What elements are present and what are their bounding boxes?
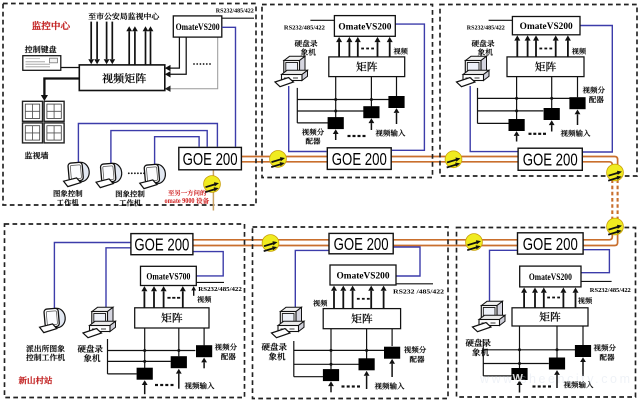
- svg-text:GOE 200: GOE 200: [332, 149, 387, 169]
- keyboard icon: [23, 56, 61, 71]
- box OmateVS200 (P1): [173, 16, 222, 37]
- bottom-middle: box 矩阵: [323, 309, 400, 329]
- box 视频矩阵: [79, 65, 165, 91]
- bottom-right: label 视频输入: [564, 381, 594, 388]
- top-right: box 矩阵: [507, 57, 584, 77]
- label 监视墙: [25, 152, 48, 159]
- svg-text:GOE 200: GOE 200: [523, 150, 578, 170]
- P4: workstation wire (blue): [54, 243, 130, 309]
- workstation 2: [96, 163, 122, 188]
- P4: RS232 wire: [196, 281, 224, 283]
- bottom-middle: box GOE 200: [329, 233, 393, 253]
- panel: bottom-middle substation: [253, 227, 449, 399]
- bottom-right: arrows matrix to codec: [523, 293, 525, 308]
- label 监控中心 (red): [32, 21, 70, 30]
- bottom-right: box GOE 200: [518, 233, 584, 254]
- panel: bottom-right substation: [457, 228, 636, 398]
- bottom-right: bus verticals from matrix: [519, 326, 521, 368]
- workstation 1: [64, 162, 90, 187]
- P4: box GOE 200: [131, 234, 193, 255]
- top-right: arrows matrix to codec: [516, 41, 518, 57]
- P4: box 矩阵: [135, 308, 209, 328]
- wires OmateVS200 down to matrix with arrows: [170, 37, 179, 68]
- bottom-right: video bus lines: [482, 339, 484, 376]
- bottom-right: label 视频: [578, 297, 592, 304]
- bottom-right: video distributors (black): [511, 368, 527, 380]
- svg-text:RS232 /485/422: RS232 /485/422: [393, 289, 445, 296]
- top-middle: DVR computer: [275, 56, 308, 86]
- svg-text:GOE 200: GOE 200: [183, 149, 238, 169]
- top-middle: bus verticals from matrix: [335, 77, 337, 118]
- fiber splice left of top-middle GOE: [270, 151, 287, 168]
- P4: label 视频分配器: [215, 343, 237, 350]
- bottom-right: box OmateVS: [520, 266, 581, 287]
- fiber splice bottom corner: [607, 218, 624, 235]
- svg-text:OmateVS700: OmateVS700: [146, 272, 190, 282]
- bottom-right: DVR computer: [473, 301, 506, 331]
- workstation wires (blue): [78, 124, 217, 163]
- bottom-middle: label 硬盘录象机: [262, 343, 287, 351]
- P4: DVR wire (blue): [106, 248, 131, 308]
- label 至另一方问的 (red): [168, 190, 206, 196]
- panel: top-middle substation: [262, 5, 433, 178]
- top-middle: label 视频: [394, 48, 408, 55]
- P4: video bus lines: [107, 339, 109, 374]
- top-right: box GOE 200: [518, 148, 582, 170]
- svg-text:W: W: [513, 373, 524, 385]
- bottom-right: label 视频分配器: [594, 344, 616, 351]
- top-middle: wires (blue): [289, 86, 327, 152]
- top-right: label 视频分配器: [583, 86, 605, 93]
- P4: video distributors (black): [137, 368, 153, 380]
- bottom-right: box 矩阵: [512, 308, 588, 326]
- down arrows to 视频矩阵: [90, 22, 92, 60]
- P4: label 视频: [197, 296, 211, 303]
- svg-text:GOE 200: GOE 200: [334, 234, 389, 254]
- svg-text:RS232/485/422: RS232/485/422: [284, 24, 326, 31]
- P4: label 派出所图象控制工作机: [26, 345, 65, 352]
- top-middle: video distributors (black): [328, 117, 344, 129]
- svg-text:omate 9000: omate 9000: [165, 196, 195, 205]
- svg-text:OmateVS200: OmateVS200: [529, 273, 572, 283]
- top-middle: label 视频输入: [376, 129, 406, 136]
- panel: top-right substation: [440, 5, 637, 177]
- label 图象控制工作机 (1): [54, 190, 83, 197]
- P4: box OmateVS700: [141, 266, 197, 285]
- fiber optic bus: top run: [240, 157, 618, 168]
- bottom-middle: wires (blue): [295, 250, 329, 308]
- top-right: video distributors (black): [509, 119, 525, 131]
- bottom-right: label 硬盘录象机: [466, 339, 491, 347]
- P4: label 硬盘录象机: [78, 345, 103, 353]
- P4: arrows matrix to OmateVS700: [143, 291, 145, 308]
- P4: workstation icon: [40, 308, 66, 333]
- thick wire matrix to monitor wall: [44, 79, 79, 96]
- top-right: label 硬盘录象机: [472, 40, 495, 47]
- bottom-middle: box OmateVS: [330, 265, 396, 285]
- dots between control lines: [193, 63, 195, 65]
- top-middle: arrows matrix to codec: [338, 42, 340, 57]
- top-right: box OmateVS: [512, 17, 580, 35]
- svg-text:GOE 200: GOE 200: [134, 234, 189, 254]
- bottom-middle: bus verticals from matrix: [330, 329, 332, 370]
- bottom-middle: DVR computer: [272, 307, 305, 337]
- top-middle: box 矩阵: [329, 57, 405, 77]
- P4: label 视频输入: [185, 382, 215, 389]
- svg-text:OmateVS200: OmateVS200: [176, 23, 220, 33]
- drop line to remote omate: [212, 170, 214, 211]
- fiber splice left of top-right GOE: [445, 151, 462, 168]
- svg-text:OmateVS200: OmateVS200: [520, 22, 573, 32]
- top-middle: RS232 wire: [310, 19, 334, 21]
- top-middle: label 硬盘录象机: [295, 40, 318, 47]
- bottom-right: wires (blue): [490, 250, 518, 303]
- bottom-middle: video bus lines: [293, 341, 295, 377]
- wire keyboard to matrix: [61, 67, 80, 69]
- label 至市公安局监视中心: [89, 12, 160, 19]
- wire OmateVS200 to GOE 200 (blue): [222, 27, 236, 147]
- fiber splice below GOE (P1): [204, 176, 221, 193]
- dots between workstations: [128, 172, 130, 174]
- svg-text:RS232/485/422: RS232/485/422: [216, 7, 255, 14]
- top-right: RS232 wire: [489, 19, 513, 21]
- top-middle: video bus lines: [296, 88, 298, 123]
- P4: GOE to OmateVS700 wire (blue): [193, 252, 223, 276]
- top-middle: label 视频分配器: [302, 128, 324, 135]
- bottom-right: RS232 wire: [581, 280, 612, 282]
- panel: 新山村站 (bottom-left): [5, 224, 245, 398]
- P4: label 新山村站 (red): [19, 376, 52, 384]
- up arrows from 视频矩阵: [128, 31, 130, 65]
- top-right: label 视频输入: [561, 130, 591, 137]
- bottom-middle: label 视频: [313, 300, 327, 307]
- svg-text:RS232/485/422: RS232/485/422: [590, 287, 632, 294]
- svg-text:GOE 200: GOE 200: [523, 234, 578, 254]
- svg-text:RS232/485/422: RS232/485/422: [198, 286, 242, 293]
- bottom-middle: RS232 wire: [396, 283, 433, 285]
- wire from OmateVS200 to panel edge: [222, 17, 254, 19]
- monitor wall (2x2): [23, 101, 43, 121]
- top-middle: box OmateVS: [334, 16, 395, 37]
- label 控制键盘: [25, 46, 57, 53]
- P4: bus verticals from matrix: [144, 328, 146, 368]
- panel: 监控中心 (top-left): [3, 4, 256, 206]
- P4: DVR icon: [83, 307, 116, 337]
- bottom-middle: label 视频分配器: [404, 346, 426, 353]
- top-right: bus verticals from matrix: [516, 77, 518, 120]
- fiber splice left of bottom-right GOE: [466, 234, 483, 251]
- top-right: DVR computer: [457, 56, 490, 86]
- fiber splice top corner: [607, 164, 624, 181]
- bottom-middle: video distributors (black): [323, 369, 339, 381]
- top-right: label 视频: [572, 48, 586, 55]
- workstation 3: [140, 164, 166, 189]
- fiber splice left of bottom-middle GOE: [262, 235, 279, 252]
- top-right: wires (blue): [470, 86, 518, 152]
- top-middle: box GOE 200: [327, 148, 391, 170]
- top-right: video bus lines: [477, 88, 479, 124]
- svg-text:OmateVS200: OmateVS200: [338, 22, 391, 32]
- label 图象控制工作机 (2): [116, 190, 145, 197]
- bottom-middle: arrows matrix to codec: [333, 291, 335, 309]
- svg-text:OmateVS200: OmateVS200: [337, 271, 390, 281]
- bottom-middle: label 视频输入: [375, 382, 405, 389]
- fiber optic bus: bottom run: [192, 230, 618, 246]
- svg-text:RS232/485/422: RS232/485/422: [467, 24, 506, 31]
- fiber optic bus: dashed vertical segment: [617, 167, 619, 232]
